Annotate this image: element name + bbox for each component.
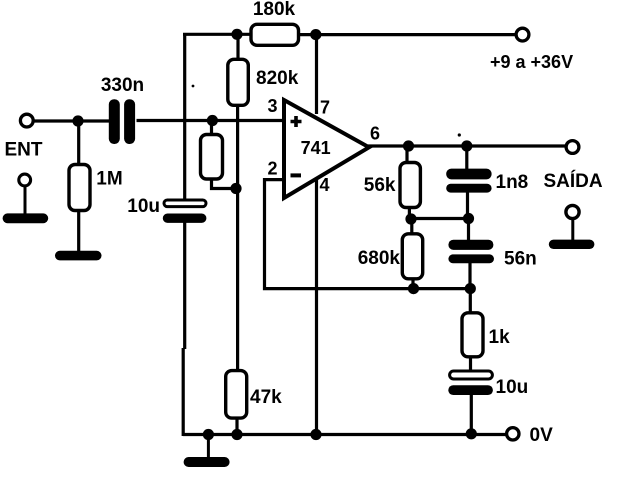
wire 820k bottom lead down to 47k top bbox=[236, 105, 239, 372]
wire 1k bottom lead to 10u bbox=[469, 356, 472, 372]
wire 1k top lead bbox=[469, 289, 472, 314]
resistor 56k bbox=[364, 163, 421, 208]
svg-text:+9 a +36V: +9 a +36V bbox=[490, 52, 573, 72]
svg-text:3: 3 bbox=[267, 96, 277, 116]
node junction input small resistor bbox=[207, 115, 218, 126]
svg-text:56k: 56k bbox=[364, 175, 396, 196]
wire 1M bottom lead bbox=[77, 210, 80, 253]
wire 47k bottom lead bbox=[235, 417, 238, 435]
node junction rail 47k bottom bbox=[231, 429, 242, 440]
wire pin 4 vertical bbox=[315, 180, 318, 436]
wire 56k bottom lead bbox=[408, 207, 411, 219]
wire 10u bottom lead bbox=[470, 395, 473, 434]
svg-text:6: 6 bbox=[370, 124, 380, 144]
node junction 56k bottom bbox=[405, 213, 416, 224]
capacitor 330n bbox=[101, 75, 144, 144]
wire 1n8 top lead bbox=[465, 146, 468, 171]
ground ENT input bbox=[3, 174, 49, 223]
pin 2 label bbox=[267, 159, 277, 179]
svg-text:330n: 330n bbox=[101, 75, 144, 96]
node junction output 1n8 top bbox=[461, 140, 472, 151]
wire horizontal 56k bottom to 1n8 bottom bbox=[409, 217, 468, 220]
svg-text:1n8: 1n8 bbox=[496, 172, 529, 193]
wire 56n top lead bbox=[467, 219, 470, 241]
svg-text:10u: 10u bbox=[496, 377, 529, 398]
svg-text:180k: 180k bbox=[253, 0, 296, 20]
node junction 680k bottom feedback bbox=[408, 283, 419, 294]
terminal 0V bbox=[507, 425, 553, 446]
pin 4 label bbox=[320, 175, 330, 195]
pin 3 label bbox=[267, 96, 277, 116]
node junction ENT-1M bbox=[72, 115, 83, 126]
wire left vertical bias decoupling line upper bbox=[183, 33, 186, 201]
svg-text:1k: 1k bbox=[489, 327, 511, 348]
resistor unlabeled bias bbox=[201, 135, 223, 180]
node junction rail ground stem bbox=[203, 429, 214, 440]
svg-text:10u: 10u bbox=[127, 196, 160, 217]
wire small resistor top lead bbox=[210, 121, 213, 136]
wire input line ENT to 330n bbox=[32, 119, 110, 122]
svg-text:0V: 0V bbox=[530, 425, 554, 446]
wire 820k top lead bbox=[236, 33, 239, 60]
wire 180k right to +9V terminal bbox=[298, 33, 515, 36]
svg-text:1M: 1M bbox=[96, 169, 122, 190]
ground SAIDA bbox=[549, 205, 595, 249]
node junction output 56k top bbox=[403, 140, 414, 151]
wire bottom 0V rail bbox=[183, 433, 506, 436]
svg-text:47k: 47k bbox=[250, 387, 282, 408]
wire 56k top lead bbox=[405, 146, 408, 163]
svg-text:2: 2 bbox=[267, 159, 277, 179]
capacitor 1n8 bbox=[446, 169, 528, 193]
speck artifact right bbox=[458, 133, 461, 136]
node junction rail 10u bottom bbox=[466, 428, 477, 439]
node junction 180k left 820k top bbox=[231, 29, 242, 40]
wire 680k bottom lead bbox=[411, 278, 414, 289]
terminal +9 a +36V bbox=[490, 28, 573, 72]
node junction 180k right pin7 bbox=[310, 29, 321, 40]
svg-text:680k: 680k bbox=[358, 248, 401, 269]
svg-text:ENT: ENT bbox=[5, 140, 43, 161]
svg-text:56n: 56n bbox=[504, 249, 537, 270]
node junction 1n8 bottom 56n top bbox=[463, 213, 474, 224]
wire 56n bottom lead bbox=[468, 263, 471, 289]
wire left vertical bias decoupling line lower bbox=[183, 221, 185, 437]
wire 1M top lead bbox=[77, 121, 80, 166]
capacitor 10u electrolytic right bbox=[448, 371, 528, 398]
wire pin 7 vertical bbox=[315, 35, 318, 114]
pin 7 label bbox=[320, 98, 330, 118]
terminal ENT bbox=[5, 114, 43, 160]
node junction 56n bottom 1k top bbox=[465, 283, 476, 294]
ground main rail bbox=[184, 435, 230, 468]
wire top-left horizontal from left vertical to 180k bbox=[183, 33, 252, 36]
wire small resistor bottom lead L-shape bbox=[212, 178, 237, 189]
resistor 47k bbox=[226, 371, 282, 419]
pin 6 label bbox=[370, 124, 380, 144]
capacitor 56n bbox=[448, 240, 536, 270]
wire 680k top lead bbox=[410, 219, 413, 235]
wire input line 330n to pin 3 bbox=[137, 119, 286, 122]
resistor 680k bbox=[358, 234, 423, 279]
svg-text:820k: 820k bbox=[256, 68, 299, 89]
svg-text:4: 4 bbox=[320, 175, 330, 195]
svg-text:7: 7 bbox=[320, 98, 330, 118]
resistor 1M bbox=[69, 165, 123, 211]
wire 1n8 bottom lead bbox=[466, 191, 469, 219]
svg-text:SAÍDA: SAÍDA bbox=[544, 170, 603, 192]
node junction small resistor bottom bbox=[230, 183, 241, 194]
op-amp 741 bbox=[284, 100, 369, 198]
resistor 180k bbox=[251, 0, 299, 45]
capacitor 10u electrolytic left bbox=[127, 196, 206, 223]
svg-text:741: 741 bbox=[301, 138, 331, 158]
wire output pin 6 to SAIDA terminal bbox=[368, 144, 565, 147]
ground 1M bbox=[55, 251, 102, 261]
resistor 820k bbox=[228, 59, 299, 105]
speck artifact left bbox=[192, 85, 195, 88]
node junction rail pin4 bbox=[310, 429, 321, 440]
terminal SAIDA bbox=[544, 141, 603, 192]
wire pin 2 feedback path bbox=[265, 180, 471, 289]
resistor 1k bbox=[462, 313, 510, 357]
